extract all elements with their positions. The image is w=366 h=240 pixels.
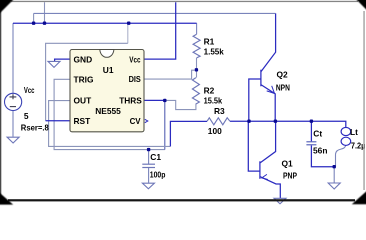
svg-text:100p: 100p: [150, 170, 166, 180]
svg-text:CV: CV: [130, 116, 141, 126]
svg-text:Rser=.8: Rser=.8: [21, 123, 49, 133]
svg-text:U1: U1: [103, 65, 114, 75]
svg-text:THRS: THRS: [119, 95, 142, 105]
svg-text:Q2: Q2: [277, 69, 289, 79]
svg-text:Q1: Q1: [282, 159, 294, 169]
svg-text:NPN: NPN: [276, 83, 290, 93]
svg-text:7.2µ: 7.2µ: [351, 140, 366, 150]
svg-text:1.55k: 1.55k: [204, 47, 225, 57]
svg-text:Vcc: Vcc: [129, 54, 140, 64]
svg-text:C1: C1: [150, 152, 161, 162]
svg-text:56n: 56n: [313, 145, 327, 155]
svg-text:PNP: PNP: [283, 170, 297, 180]
svg-text:OUT: OUT: [74, 96, 93, 106]
svg-text:GND: GND: [74, 54, 93, 64]
svg-text:Vcc: Vcc: [24, 85, 35, 95]
svg-text:RST: RST: [74, 116, 92, 126]
svg-text:NE555: NE555: [95, 106, 121, 116]
svg-text:DIS: DIS: [129, 74, 142, 84]
svg-text:R1: R1: [204, 36, 215, 46]
svg-text:R3: R3: [214, 106, 225, 116]
svg-text:Ct: Ct: [313, 128, 322, 138]
svg-text:5: 5: [24, 111, 29, 121]
svg-text:100: 100: [208, 126, 222, 136]
svg-text:TRIG: TRIG: [74, 74, 94, 84]
svg-text:15.5k: 15.5k: [204, 95, 223, 105]
svg-text:R2: R2: [204, 85, 215, 95]
svg-text:Lt: Lt: [350, 127, 358, 137]
